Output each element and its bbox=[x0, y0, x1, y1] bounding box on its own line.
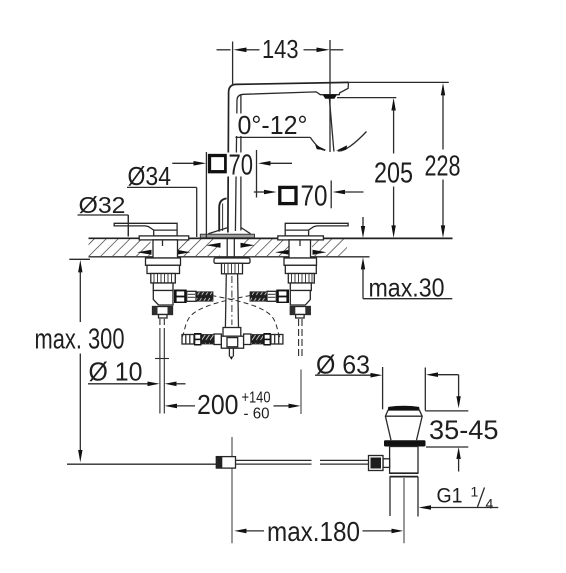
svg-text:70: 70 bbox=[229, 150, 254, 182]
svg-text:143: 143 bbox=[262, 36, 299, 64]
svg-text:1: 1 bbox=[471, 484, 479, 500]
svg-text:Ø34: Ø34 bbox=[128, 161, 172, 191]
svg-text:200: 200 bbox=[197, 389, 239, 420]
svg-text:Ø 10: Ø 10 bbox=[89, 357, 143, 387]
svg-text:70: 70 bbox=[301, 180, 328, 212]
svg-text:- 60: - 60 bbox=[244, 406, 270, 423]
svg-text:Ø32: Ø32 bbox=[79, 192, 126, 218]
svg-text:max. 300: max. 300 bbox=[35, 324, 125, 356]
svg-text:0°-12°: 0°-12° bbox=[238, 110, 308, 140]
svg-text:G1: G1 bbox=[437, 485, 463, 508]
svg-text:228: 228 bbox=[425, 151, 461, 183]
svg-text:max.180: max.180 bbox=[267, 516, 360, 547]
svg-text:+140: +140 bbox=[242, 390, 271, 407]
svg-text:4: 4 bbox=[486, 496, 494, 512]
svg-text:max.30: max.30 bbox=[369, 273, 445, 303]
svg-text:205: 205 bbox=[374, 158, 413, 190]
svg-text:35-45: 35-45 bbox=[429, 415, 499, 445]
